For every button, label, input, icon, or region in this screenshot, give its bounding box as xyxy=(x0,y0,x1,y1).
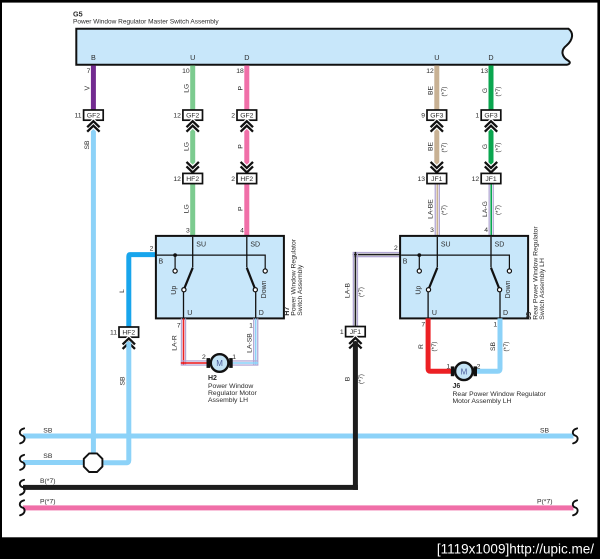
motor H2 body xyxy=(211,354,229,372)
svg-text:P: P xyxy=(238,144,245,149)
splice chevron below HF2-11 xyxy=(123,338,135,344)
wire P GF2 to HF2 xyxy=(244,125,249,169)
svg-text:4: 4 xyxy=(240,227,244,234)
up switch blade xyxy=(185,268,193,288)
svg-text:M: M xyxy=(461,367,468,376)
svg-text:(*7): (*7) xyxy=(358,287,365,297)
svg-text:Power Window: Power Window xyxy=(208,383,253,390)
splice chevron below GF2-11 xyxy=(87,121,99,127)
svg-text:B(*7): B(*7) xyxy=(40,478,56,485)
svg-text:SB: SB xyxy=(43,453,53,460)
svg-text:J6: J6 xyxy=(453,383,461,390)
svg-text:13: 13 xyxy=(480,68,488,75)
down blade contact xyxy=(253,288,257,292)
motor J6 left brush xyxy=(451,366,455,376)
U conductor xyxy=(183,292,185,318)
connector HF2 pin 11 xyxy=(119,327,139,337)
svg-text:LA-BE: LA-BE xyxy=(428,199,435,219)
svg-text:(*7): (*7) xyxy=(358,374,365,384)
B(*7) bus xyxy=(23,485,358,490)
svg-text:Regulator Motor: Regulator Motor xyxy=(208,390,257,397)
svg-text:P: P xyxy=(238,85,245,90)
svg-text:(*7): (*7) xyxy=(441,205,448,215)
P bus left break xyxy=(20,500,25,515)
svg-text:Down: Down xyxy=(505,280,512,298)
svg-text:1: 1 xyxy=(232,354,236,361)
svg-text:7: 7 xyxy=(87,68,91,75)
svg-text:2: 2 xyxy=(231,113,235,120)
wire LA-R switch pin 7 to motor H2 xyxy=(181,318,182,365)
svg-text:P: P xyxy=(238,206,245,211)
B contact (down side) xyxy=(263,269,267,273)
B bus left break xyxy=(20,480,25,495)
B contact (down side) xyxy=(507,269,511,273)
svg-text:D: D xyxy=(503,310,508,317)
frame left border xyxy=(0,0,2,559)
SB bus lower (to junction) xyxy=(23,460,86,465)
svg-text:Switch Assembly: Switch Assembly xyxy=(297,264,304,316)
junction connector (octagon) xyxy=(84,453,103,472)
up blade contact xyxy=(426,288,430,292)
svg-text:13: 13 xyxy=(417,176,425,183)
svg-text:G: G xyxy=(482,88,489,93)
svg-text:D: D xyxy=(244,53,249,62)
svg-text:JF1: JF1 xyxy=(431,176,443,183)
svg-text:SB: SB xyxy=(490,342,497,352)
svg-text:G5: G5 xyxy=(73,10,83,19)
wire G pin D to GF3 xyxy=(489,66,494,111)
svg-text:2: 2 xyxy=(394,245,398,252)
svg-text:12: 12 xyxy=(173,113,181,120)
svg-text:R: R xyxy=(418,344,425,349)
svg-text:12: 12 xyxy=(173,176,181,183)
wire LG HF2 to switch SU xyxy=(190,184,195,237)
junction dot on B line xyxy=(173,253,177,257)
connector JF1 pin 13 xyxy=(427,173,447,183)
wire LG GF2 to HF2 xyxy=(190,125,195,169)
svg-text:D: D xyxy=(488,53,493,62)
svg-text:SD: SD xyxy=(495,242,505,249)
wire LA-SB motor H2 to switch pin 1 xyxy=(253,318,254,365)
down blade contact xyxy=(498,288,502,292)
svg-text:D: D xyxy=(259,310,264,317)
svg-text:L: L xyxy=(119,289,126,293)
up blade contact xyxy=(182,288,186,292)
svg-text:Down: Down xyxy=(261,280,268,298)
svg-text:(*7): (*7) xyxy=(495,87,502,97)
svg-text:(*7): (*7) xyxy=(495,143,502,153)
svg-text:9: 9 xyxy=(421,113,425,120)
SB bus upper right break xyxy=(573,428,578,443)
svg-text:1: 1 xyxy=(340,329,344,336)
svg-text:7: 7 xyxy=(177,323,181,330)
svg-text:P(*7): P(*7) xyxy=(537,499,553,506)
internal B distribution line xyxy=(157,255,265,269)
svg-text:U: U xyxy=(434,53,439,62)
wire SB from GF2 down to junction xyxy=(91,125,96,455)
svg-text:3: 3 xyxy=(430,227,434,234)
svg-text:1: 1 xyxy=(493,322,497,329)
svg-text:(*7): (*7) xyxy=(431,342,438,352)
svg-text:B: B xyxy=(403,259,408,266)
wire LA-BE JF1 to switch SU xyxy=(435,184,436,237)
connector HF2 pin 12 xyxy=(183,173,203,183)
svg-text:18: 18 xyxy=(236,68,244,75)
SB bus upper xyxy=(23,434,574,439)
down switch blade xyxy=(247,268,255,288)
down switch blade xyxy=(491,268,499,288)
SD conductor xyxy=(246,237,248,268)
SU conductor xyxy=(192,237,194,268)
frame right border xyxy=(597,0,600,559)
junction dot on B line xyxy=(417,253,421,257)
splice chevron above HF2-2 xyxy=(241,162,253,168)
svg-text:4: 4 xyxy=(484,227,488,234)
svg-text:Switch Assembly LH: Switch Assembly LH xyxy=(539,258,546,320)
svg-text:3: 3 xyxy=(186,227,190,234)
svg-text:11: 11 xyxy=(110,330,117,337)
svg-text:(*7): (*7) xyxy=(495,205,502,215)
svg-text:Up: Up xyxy=(171,286,178,295)
motor J6 right brush xyxy=(474,366,478,376)
svg-text:LG: LG xyxy=(184,204,191,213)
SU conductor xyxy=(436,237,438,268)
svg-text:Power Window Regulator Master: Power Window Regulator Master Switch Ass… xyxy=(73,19,219,26)
svg-text:2: 2 xyxy=(231,176,235,183)
svg-text:JF1: JF1 xyxy=(485,176,497,183)
U conductor xyxy=(427,292,429,318)
motor J6 body xyxy=(455,363,473,381)
svg-text:U: U xyxy=(187,310,192,317)
SB bus lower left break xyxy=(20,455,25,470)
svg-text:10: 10 xyxy=(182,68,190,75)
svg-text:G: G xyxy=(482,144,489,149)
svg-text:Up: Up xyxy=(416,286,423,295)
switch assembly box H7 xyxy=(156,236,284,319)
svg-text:P(*7): P(*7) xyxy=(40,498,56,505)
svg-text:Rear Power Window Regulator: Rear Power Window Regulator xyxy=(453,391,547,398)
wire SB from HF2-11 to junction xyxy=(101,342,129,463)
svg-text:BE: BE xyxy=(428,86,435,96)
svg-text:BE: BE xyxy=(428,142,435,152)
svg-text:7: 7 xyxy=(421,322,425,329)
svg-text:SB: SB xyxy=(43,427,53,434)
svg-text:12: 12 xyxy=(472,176,480,183)
svg-text:12: 12 xyxy=(426,68,434,75)
splice chevron below GF3-9 xyxy=(431,121,443,127)
wire G GF3 to JF1 xyxy=(489,125,494,169)
P bus right break xyxy=(573,500,578,515)
connector JF1 pin 1 xyxy=(346,327,366,337)
svg-text:2: 2 xyxy=(477,363,481,370)
B contact (up side) xyxy=(173,269,177,273)
wire P pin D to GF2 xyxy=(244,66,249,111)
svg-text:SU: SU xyxy=(441,242,451,249)
D conductor xyxy=(499,292,501,318)
svg-text:SB: SB xyxy=(119,376,126,386)
svg-text:H2: H2 xyxy=(208,375,217,382)
svg-text:2: 2 xyxy=(202,354,206,361)
connector HF2 pin 2 xyxy=(237,173,257,183)
connector JF1 pin 12 xyxy=(481,173,501,183)
internal B distribution line xyxy=(401,255,509,269)
wire BE GF3 to JF1 xyxy=(434,125,439,169)
wire R switch pin 7 to motor J6 xyxy=(428,318,452,371)
wire P HF2 to switch SD xyxy=(244,184,249,237)
svg-text:U: U xyxy=(190,53,195,62)
frame top border xyxy=(0,0,600,3)
svg-text:HF2: HF2 xyxy=(186,176,199,183)
splice chevron below JF1-1 xyxy=(349,338,361,344)
svg-text:(*7): (*7) xyxy=(441,87,448,97)
svg-text:[1119x1009]http://upic.me/: [1119x1009]http://upic.me/ xyxy=(437,541,594,556)
svg-text:LA-B: LA-B xyxy=(345,282,352,298)
connector GF3 pin 9 xyxy=(427,110,447,120)
svg-text:Assembly LH: Assembly LH xyxy=(208,397,248,404)
B contact (up side) xyxy=(417,269,421,273)
svg-text:B: B xyxy=(91,53,96,62)
svg-text:HF2: HF2 xyxy=(240,176,253,183)
svg-text:(*7): (*7) xyxy=(441,143,448,153)
switch assembly box J5 xyxy=(400,236,528,319)
connector GF2 pin 11 xyxy=(84,110,104,120)
svg-text:LG: LG xyxy=(184,84,191,93)
svg-text:LG: LG xyxy=(184,142,191,151)
svg-text:1: 1 xyxy=(475,113,479,120)
D conductor xyxy=(255,292,257,318)
splice chevron below GF2-2 xyxy=(241,121,253,127)
svg-text:2: 2 xyxy=(150,246,154,253)
wire B (black) from JF1-1 to B bus xyxy=(353,341,358,490)
SB bus upper left break xyxy=(20,428,25,443)
svg-text:V: V xyxy=(84,86,91,91)
svg-text:(*7): (*7) xyxy=(503,342,510,352)
motor H2 left brush xyxy=(207,358,211,368)
wire LG pin U to GF2 xyxy=(190,66,195,111)
splice chevron below GF3-1 xyxy=(485,121,497,127)
up switch blade xyxy=(429,268,437,288)
splice chevron above JF1-12 xyxy=(485,162,497,168)
svg-text:SU: SU xyxy=(196,242,206,249)
svg-text:SB: SB xyxy=(540,427,550,434)
svg-text:1: 1 xyxy=(249,323,253,330)
wire V pin B to GF2 xyxy=(91,66,96,111)
wire BE pin U to GF3 xyxy=(434,66,439,111)
svg-text:B: B xyxy=(159,259,164,266)
svg-text:SB: SB xyxy=(84,140,91,150)
svg-text:U: U xyxy=(432,310,437,317)
svg-text:LA-G: LA-G xyxy=(482,201,489,217)
SD conductor xyxy=(490,237,492,268)
svg-text:B: B xyxy=(345,376,352,381)
P(*7) bus xyxy=(23,505,574,510)
svg-text:SD: SD xyxy=(250,242,260,249)
connector GF3 pin 1 xyxy=(481,110,501,120)
wire LA-G JF1 to switch SD xyxy=(489,184,490,237)
connector GF2 pin 2 xyxy=(237,110,257,120)
svg-text:LA-SB: LA-SB xyxy=(247,333,254,353)
motor H2 right brush xyxy=(229,358,233,368)
wire LA-B from rear switch pin 2 xyxy=(353,252,401,253)
wire SB motor J6 to switch pin 1 xyxy=(475,318,500,371)
svg-text:1: 1 xyxy=(446,363,450,370)
svg-text:M: M xyxy=(216,359,223,368)
svg-text:11: 11 xyxy=(75,113,82,120)
splice chevron above JF1-13 xyxy=(431,162,443,168)
watermark bar xyxy=(0,537,600,559)
wire L from switch pin 2 xyxy=(129,255,157,327)
splice chevron above HF2-12 xyxy=(187,162,199,168)
master switch assembly bar G5 xyxy=(76,29,572,65)
svg-text:LA-R: LA-R xyxy=(172,335,179,351)
svg-text:Motor Assembly LH: Motor Assembly LH xyxy=(453,398,512,405)
splice chevron below GF2-12 xyxy=(187,121,199,127)
connector GF2 pin 12 xyxy=(183,110,203,120)
